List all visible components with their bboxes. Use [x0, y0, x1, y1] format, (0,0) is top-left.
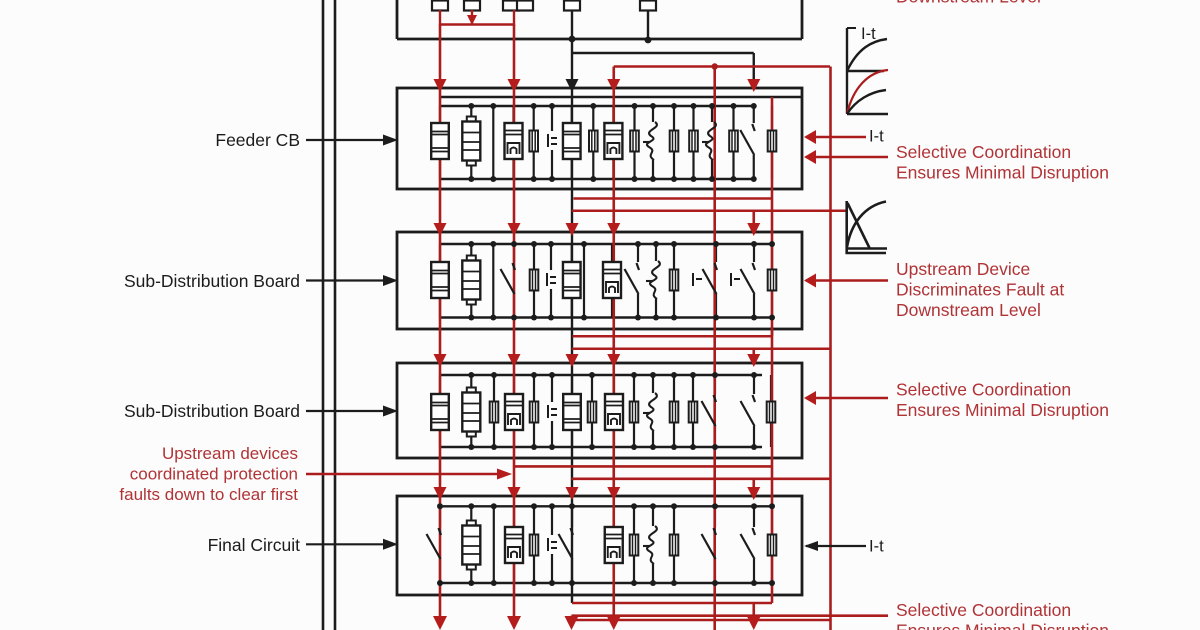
- svg-text:Upstream Device: Upstream Device: [896, 259, 1030, 279]
- svg-text:Sub-Distribution Board: Sub-Distribution Board: [124, 271, 300, 291]
- svg-text:Final Circuit: Final Circuit: [208, 535, 301, 555]
- svg-text:Downstream Level: Downstream Level: [896, 300, 1041, 320]
- svg-text:coordinated protection: coordinated protection: [130, 465, 298, 484]
- svg-text:Downstream Level: Downstream Level: [896, 0, 1041, 7]
- svg-text:Sub-Distribution Board: Sub-Distribution Board: [124, 401, 300, 421]
- svg-text:Discriminates Fault at: Discriminates Fault at: [896, 280, 1064, 300]
- svg-text:I-t: I-t: [869, 538, 884, 556]
- svg-text:Selective Coordination: Selective Coordination: [896, 142, 1071, 162]
- svg-text:Feeder CB: Feeder CB: [215, 130, 300, 150]
- svg-text:faults down to clear first: faults down to clear first: [119, 485, 298, 504]
- svg-text:Ensures Minimal Disruption: Ensures Minimal Disruption: [896, 621, 1109, 630]
- svg-text:Selective Coordination: Selective Coordination: [896, 380, 1071, 400]
- svg-text:Ensures Minimal Disruption: Ensures Minimal Disruption: [896, 163, 1109, 183]
- svg-text:Selective Coordination: Selective Coordination: [896, 600, 1071, 620]
- svg-text:I-t: I-t: [869, 128, 884, 146]
- svg-text:Ensures Minimal Disruption: Ensures Minimal Disruption: [896, 400, 1109, 420]
- svg-text:Upstream devices: Upstream devices: [162, 444, 298, 463]
- svg-text:I-t: I-t: [861, 25, 876, 43]
